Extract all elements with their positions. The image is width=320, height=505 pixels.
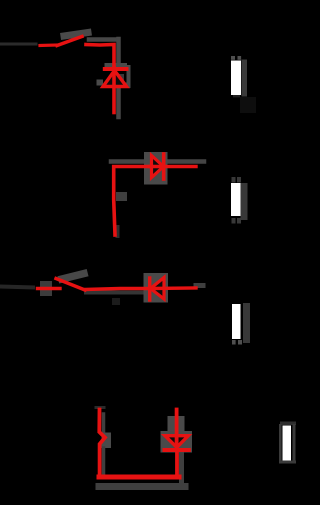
diode D2 grey shadow block xyxy=(144,152,168,185)
node (faint junction blob below middle wire) xyxy=(112,298,120,305)
diode D4 grey shadow block xyxy=(144,273,169,303)
wire (grey shadow right of wire below D1) xyxy=(116,89,121,117)
wire (grey mark atop bottom-left vertical) xyxy=(96,406,104,409)
wire (grey shadow below middle wire) xyxy=(86,291,150,295)
lamp L2 (white bar) xyxy=(231,183,241,216)
diode D4 (triangle, apex left) xyxy=(151,278,165,300)
wire (grey shadow above switch SW1 blade) xyxy=(64,33,88,37)
wire (grey shadow right of bottom-left vertical, lower) xyxy=(102,448,106,474)
switch SW3 grey shadow block (kink on left vertical) xyxy=(102,433,112,449)
diode D3 grey shadow block xyxy=(168,416,185,434)
diode D1 (triangle, apex up) xyxy=(103,71,127,87)
wire (grey shadow right of bottom-right vertical) xyxy=(179,455,184,483)
wire (bottom-left vertical with switch SW3 kink) xyxy=(99,410,105,478)
wire (top row to corner and down to D1) xyxy=(86,45,114,67)
wire (red stub, middle row) xyxy=(38,287,61,290)
diode D3 (cathode bar) xyxy=(165,448,189,452)
wire (grey shadow right of bottom-left vertical) xyxy=(102,414,106,432)
lamp L1 (white bar) xyxy=(231,61,241,96)
wire (grey lead from left edge, top row) xyxy=(0,43,36,46)
wire (grey shadow below bottom wire) xyxy=(99,483,185,490)
wire (through and below D1) xyxy=(112,68,116,113)
wire (grey shadow above row-2 horizontal wire) xyxy=(111,159,204,164)
wire (grey shadow above switch SW2 blade) xyxy=(62,274,84,280)
diode D2 (triangle, apex right) xyxy=(152,156,164,178)
wire (grey shadow right end of middle wire) xyxy=(196,283,203,288)
wire (bottom horizontal) xyxy=(99,475,179,480)
wire (middle row left of D4) xyxy=(85,289,148,290)
wire (grey lead from left edge, middle row) xyxy=(0,287,33,288)
wire (grey shadow of top wire to corner) xyxy=(89,37,117,42)
wire (row-2 horizontal and corner down) xyxy=(150,165,196,168)
wire (bottom-right vertical) xyxy=(175,452,179,477)
switch SW2 blade (open) xyxy=(56,279,85,291)
wire (middle row right of D4) xyxy=(151,286,196,290)
wire (grey shadow right of row-2 vertical wire, lower stub) xyxy=(116,227,120,236)
wire (red stub after left lead, top row) xyxy=(40,43,58,47)
switch SW2 grey shadow block xyxy=(40,281,52,296)
switch SW1 blade (open) xyxy=(57,37,82,46)
diode D1 (cathode bar) xyxy=(105,67,127,71)
diode D4 (cathode bar) xyxy=(148,278,151,300)
wire (above and through D3) xyxy=(175,410,179,448)
diode D3 (triangle, apex down) xyxy=(165,436,188,448)
diode D2 (cathode bar) xyxy=(162,154,166,179)
wire (grey shadow right of vertical wire, top) xyxy=(116,39,121,64)
lamp L4 (white bar with grey frame) xyxy=(280,422,296,426)
lamp L3 (white bar) xyxy=(232,304,241,339)
wire (grey blob right of row-2 vertical wire) xyxy=(116,192,127,201)
diode D1 grey shadow fringes xyxy=(97,63,131,88)
